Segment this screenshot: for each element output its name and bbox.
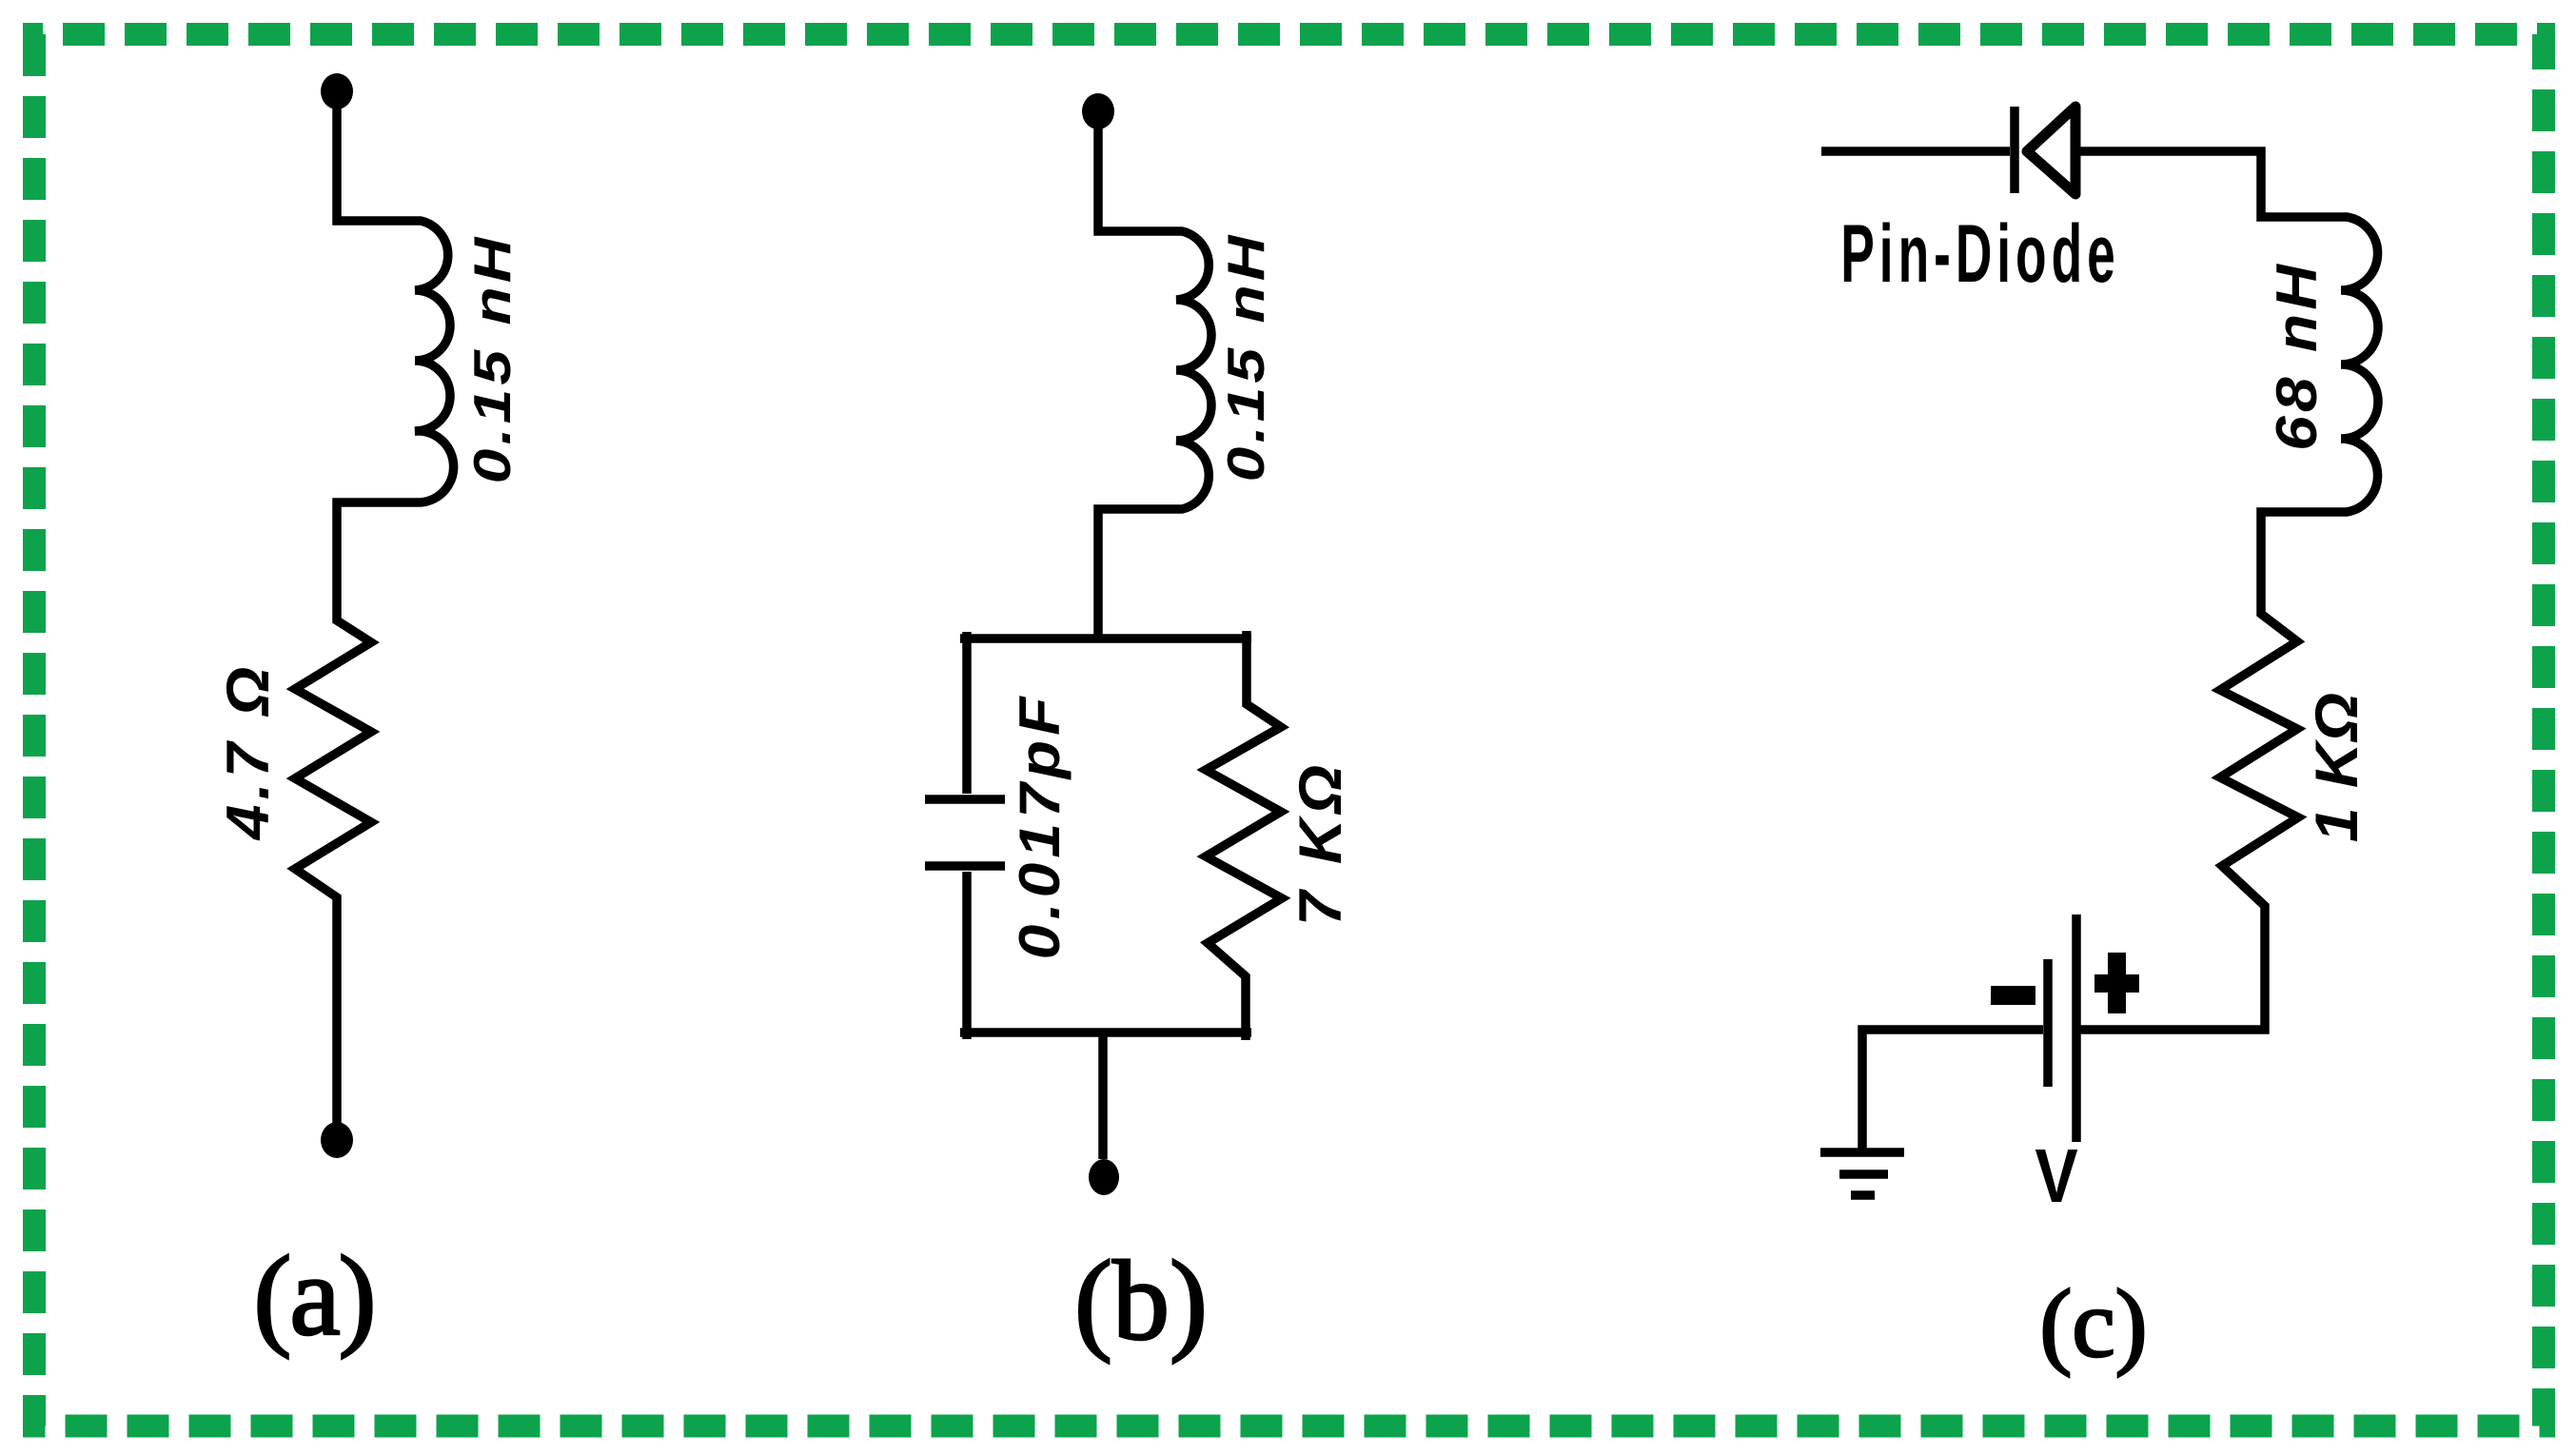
svg-text:(b): (b) (1074, 1237, 1208, 1364)
svg-text:Pin-Diode: Pin-Diode (1840, 208, 2119, 300)
svg-text:(c): (c) (2039, 1270, 2147, 1378)
svg-text:1 KΩ: 1 KΩ (2304, 692, 2370, 842)
svg-text:4.7 Ω: 4.7 Ω (215, 662, 282, 842)
svg-text:0.017pF: 0.017pF (1008, 693, 1072, 960)
svg-text:(a): (a) (253, 1232, 374, 1359)
svg-text:V: V (2035, 1133, 2077, 1218)
svg-text:7 KΩ: 7 KΩ (1288, 760, 1354, 926)
svg-text:0.15 nH: 0.15 nH (1216, 232, 1274, 482)
svg-text:0.15 nH: 0.15 nH (462, 234, 521, 484)
svg-text:68 nH: 68 nH (2265, 261, 2329, 451)
